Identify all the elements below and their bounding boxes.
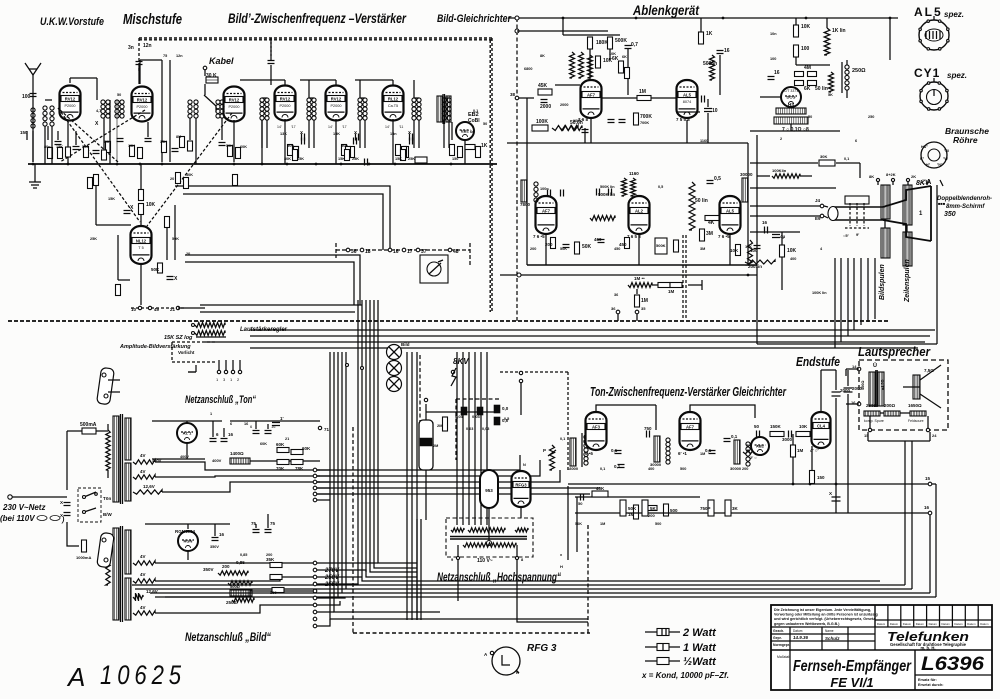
svg-text:15: 15: [864, 433, 869, 438]
svg-text:150: 150: [20, 130, 28, 135]
svg-text:15K SZ log: 15K SZ log: [164, 335, 193, 341]
svg-text:250Ω: 250Ω: [866, 403, 878, 408]
svg-text:10K: 10K: [745, 245, 752, 249]
svg-text:100K lin: 100K lin: [812, 291, 827, 295]
svg-text:6K: 6K: [622, 55, 627, 59]
svg-text:H°: H°: [926, 163, 931, 167]
svg-text:500: 500: [670, 508, 678, 513]
svg-text:78K: 78K: [295, 466, 304, 471]
svg-text:′11: ′11: [399, 125, 403, 129]
svg-text:4V: 4V: [140, 605, 146, 610]
svg-text:25K: 25K: [90, 237, 97, 241]
svg-text:50K: 50K: [226, 144, 233, 148]
svg-text:400V: 400V: [212, 458, 222, 463]
svg-text:Schulz: Schulz: [825, 636, 840, 641]
svg-text:Datum: Datum: [954, 622, 963, 626]
svg-text:′17: ′17: [342, 125, 347, 129]
svg-text:Bild: Bild: [401, 342, 410, 347]
svg-text:500: 500: [287, 143, 294, 148]
svg-text:■■■: ■■■: [938, 201, 946, 206]
svg-text:AL5: AL5: [726, 208, 735, 213]
svg-text:150K: 150K: [770, 424, 782, 429]
svg-text:8KV: 8KV: [453, 357, 469, 366]
svg-text:1 Watt: 1 Watt: [683, 642, 717, 654]
svg-text:50 lin: 50 lin: [815, 86, 828, 92]
svg-text:35: 35: [641, 306, 646, 311]
svg-text:X: X: [300, 130, 303, 135]
svg-text:9′: 9′: [856, 232, 859, 237]
svg-text:200: 200: [222, 564, 230, 569]
svg-text:Mischstufe: Mischstufe: [123, 11, 182, 28]
svg-text:500mA: 500mA: [80, 422, 97, 428]
svg-text:2: 2: [780, 137, 782, 141]
svg-text:Die Zeichnung ist unser Eigent: Die Zeichnung ist unser Eigentum. Jede V…: [774, 608, 871, 612]
svg-text:NL12: NL12: [136, 238, 147, 243]
svg-text:12,6V: 12,6V: [143, 484, 155, 489]
svg-text:spez.: spez.: [944, 10, 964, 19]
svg-text:DCG: DCG: [787, 95, 796, 100]
svg-text:J4: J4: [815, 198, 821, 203]
svg-text:B/W: B/W: [103, 512, 113, 517]
svg-text:Normgepr.: Normgepr.: [773, 643, 790, 647]
svg-text:2M: 2M: [437, 423, 443, 428]
svg-text:50K: 50K: [172, 237, 179, 241]
svg-text:16: 16: [244, 422, 248, 426]
svg-text:350: 350: [270, 590, 277, 595]
svg-text:15K: 15K: [56, 145, 63, 149]
svg-text:X: X: [60, 500, 63, 505]
svg-text:P2000: P2000: [137, 105, 148, 109]
svg-text:Zeilenspulen: Zeilenspulen: [904, 259, 911, 303]
svg-text:½Watt: ½Watt: [683, 656, 717, 668]
svg-text:1M: 1M: [700, 452, 705, 456]
svg-text:0,1: 0,1: [600, 467, 605, 471]
svg-text:Bildspulen: Bildspulen: [879, 264, 886, 300]
svg-text:(bei 110V: (bei 110V: [0, 514, 35, 523]
svg-text:4M: 4M: [804, 65, 811, 71]
svg-text:Datum: Datum: [942, 622, 951, 626]
svg-text:16: 16: [219, 532, 225, 537]
svg-text:RFG3: RFG3: [515, 482, 527, 487]
svg-text:1K: 1K: [706, 31, 713, 37]
svg-text:A: A: [66, 662, 85, 692]
svg-text:°N°: °N°: [937, 163, 943, 167]
svg-text:36: 36: [611, 306, 616, 311]
svg-text:Bild-Gleichrichter: Bild-Gleichrichter: [437, 13, 512, 25]
svg-text:50: 50: [117, 93, 121, 97]
svg-text:1K lin: 1K lin: [832, 28, 846, 34]
svg-text:○5′: ○5′: [843, 233, 849, 238]
svg-text:12n: 12n: [143, 43, 152, 49]
svg-text:7 6 •5: 7 6 •5: [718, 234, 730, 239]
svg-text:100: 100: [801, 46, 810, 52]
svg-text:35K: 35K: [160, 140, 167, 144]
svg-text:40K: 40K: [596, 486, 605, 491]
svg-text:RGN4004: RGN4004: [175, 529, 196, 534]
svg-text:20: 20: [186, 252, 190, 256]
svg-text:30K: 30K: [186, 173, 193, 177]
svg-text:150: 150: [452, 157, 458, 161]
svg-text:30K: 30K: [820, 154, 827, 159]
svg-text:Ü: Ü: [873, 362, 877, 369]
svg-text:CoBl: CoBl: [468, 118, 480, 124]
svg-text:13K: 13K: [280, 132, 287, 136]
svg-text:AF7: AF7: [587, 92, 596, 97]
svg-text:3M: 3M: [700, 247, 705, 251]
svg-text:HS: HS: [788, 102, 794, 107]
svg-text:30000: 30000: [730, 466, 742, 471]
svg-text:700K: 700K: [640, 121, 649, 125]
svg-text:10K: 10K: [146, 202, 156, 208]
svg-text:0,1: 0,1: [731, 434, 738, 439]
svg-text:16: 16: [774, 70, 780, 76]
svg-text:RV12: RV12: [229, 97, 240, 102]
svg-text:10K: 10K: [609, 52, 616, 56]
svg-text:400: 400: [648, 467, 654, 471]
svg-text:36: 36: [351, 249, 357, 255]
svg-text:Tön: Tön: [103, 496, 111, 501]
svg-text:750P: 750P: [700, 506, 711, 511]
svg-text:′17: ′17: [291, 125, 296, 129]
svg-text:8mm-Schirmf: 8mm-Schirmf: [946, 204, 985, 210]
svg-text:Fernseh-Empfänger: Fernseh-Empfänger: [793, 658, 912, 675]
svg-text:30 K: 30 K: [206, 73, 217, 79]
svg-text:460: 460: [594, 237, 602, 242]
svg-text:U.K.W.Vorstufe: U.K.W.Vorstufe: [40, 16, 104, 28]
svg-text:7 5 5 8: 7 5 5 8: [676, 117, 690, 122]
svg-text:250: 250: [868, 115, 874, 119]
svg-text:spez.: spez.: [947, 71, 967, 80]
svg-text:100Klin: 100Klin: [772, 168, 787, 173]
svg-text:AB2: AB2: [756, 444, 765, 449]
svg-text:12n: 12n: [176, 54, 183, 58]
svg-text:60K: 60K: [276, 442, 285, 447]
svg-text:°Bl: °Bl: [944, 149, 949, 153]
svg-text:1M: 1M: [600, 522, 605, 526]
svg-text:953: 953: [485, 488, 493, 493]
svg-text:0,7: 0,7: [631, 42, 638, 48]
svg-text:36: 36: [614, 293, 618, 297]
svg-text:350: 350: [944, 211, 956, 218]
svg-text:P2000: P2000: [280, 104, 291, 108]
svg-text:8M: 8M: [176, 135, 181, 139]
svg-text:50: 50: [754, 424, 760, 429]
svg-text:60K: 60K: [302, 446, 311, 451]
svg-text:Gepr.: Gepr.: [773, 636, 782, 640]
svg-text:75: 75: [163, 54, 167, 58]
svg-text:0,1: 0,1: [560, 437, 565, 441]
svg-text:8+2K: 8+2K: [886, 172, 896, 177]
svg-text:50K: 50K: [575, 522, 582, 526]
svg-text:3000: 3000: [782, 437, 793, 442]
svg-text:270V: 270V: [324, 568, 340, 574]
svg-text:200Ω: 200Ω: [884, 403, 896, 408]
svg-text:1160: 1160: [629, 171, 639, 176]
svg-text:6800: 6800: [524, 67, 532, 71]
svg-text:Datum: Datum: [980, 622, 989, 626]
svg-text:K°: K°: [920, 157, 925, 161]
svg-text:6n: 6n: [470, 130, 475, 134]
svg-text:18: 18: [365, 249, 371, 255]
svg-text:Ablenkgerät: Ablenkgerät: [632, 2, 700, 18]
svg-text:1650Ω: 1650Ω: [908, 403, 922, 408]
svg-text:komp. Spure: komp. Spure: [864, 419, 884, 423]
svg-text:1000mA: 1000mA: [76, 555, 91, 560]
svg-text:70K: 70K: [276, 466, 285, 471]
svg-text:10625: 10625: [100, 660, 186, 690]
svg-text:15K: 15K: [333, 132, 340, 136]
svg-text:m. b. H.: m. b. H.: [920, 646, 935, 651]
svg-text:1K: 1K: [481, 143, 488, 149]
svg-text:5K: 5K: [650, 506, 657, 511]
svg-text:2000: 2000: [852, 386, 863, 391]
svg-text:50 lin: 50 lin: [695, 198, 708, 204]
svg-text:Röhre: Röhre: [953, 135, 978, 145]
svg-text:Netzanschluß „Ton“: Netzanschluß „Ton“: [185, 394, 256, 406]
svg-text:1′: 1′: [280, 416, 284, 421]
svg-text:RV12: RV12: [65, 96, 76, 101]
svg-text:4,7: 4,7: [96, 109, 101, 113]
svg-text:38: 38: [510, 92, 516, 97]
svg-text:3M: 3M: [706, 231, 713, 237]
svg-text:Kabel: Kabel: [209, 56, 234, 66]
svg-text:und wird gerichtlich verfolgt.: und wird gerichtlich verfolgt. (Urheberr…: [774, 617, 875, 621]
svg-text:200: 200: [266, 553, 272, 557]
svg-text:CL4: CL4: [817, 423, 826, 428]
svg-text:500: 500: [655, 522, 661, 526]
svg-text:16: 16: [393, 249, 399, 255]
svg-text:4V: 4V: [140, 453, 146, 458]
svg-text:L6396: L6396: [921, 654, 985, 675]
svg-text:10: 10: [712, 108, 718, 114]
svg-text:10K: 10K: [799, 424, 808, 429]
svg-text:1M: 1M: [668, 289, 675, 294]
svg-text:Vorlicht: Vorlicht: [178, 350, 195, 355]
svg-text:Datum: Datum: [903, 622, 912, 626]
svg-text:0,1: 0,1: [705, 448, 712, 453]
svg-text:Doppelblendenroh-: Doppelblendenroh-: [937, 196, 992, 202]
svg-text:RGN: RGN: [184, 539, 193, 544]
svg-text:25K: 25K: [352, 157, 359, 161]
svg-text:Datum: Datum: [929, 622, 938, 626]
svg-text:Gezch.: Gezch.: [773, 629, 784, 633]
svg-text:100: 100: [22, 94, 31, 100]
svg-text:21: 21: [285, 437, 289, 441]
svg-text:2000: 2000: [540, 104, 551, 110]
svg-text:50K: 50K: [151, 267, 160, 272]
svg-text:75: 75: [270, 521, 276, 526]
svg-text:2001in: 2001in: [748, 264, 762, 269]
svg-text:350V: 350V: [203, 567, 214, 572]
svg-text:1M ••: 1M ••: [634, 276, 645, 281]
svg-text:100K: 100K: [536, 119, 548, 125]
svg-text:N: N: [523, 463, 526, 467]
svg-text:400V: 400V: [180, 455, 189, 459]
svg-text:2′ ○: 2′ ○: [750, 455, 757, 460]
svg-text:C/T 3371: C/T 3371: [784, 89, 798, 93]
svg-text:200: 200: [648, 513, 655, 518]
svg-text:0,0: 0,0: [502, 406, 509, 411]
svg-text:15: 15: [925, 476, 931, 481]
svg-text:30K: 30K: [284, 157, 291, 161]
svg-text:Feldsoure: Feldsoure: [908, 419, 924, 423]
svg-text:4V: 4V: [140, 572, 146, 577]
svg-text:16: 16: [762, 220, 768, 225]
svg-text:50: 50: [483, 122, 487, 126]
svg-text:0,03: 0,03: [455, 414, 464, 419]
svg-text:T 5: T 5: [138, 246, 143, 250]
svg-text:X: X: [829, 491, 832, 496]
svg-text:AZ 1: AZ 1: [183, 431, 192, 436]
svg-text:1M: 1M: [641, 298, 648, 304]
svg-text:500: 500: [82, 145, 88, 149]
svg-text:15n: 15n: [390, 132, 397, 136]
svg-text:16: 16: [724, 48, 730, 54]
svg-text:Verwertung oder Mitteilung an: Verwertung oder Mitteilung an dritte Per…: [774, 613, 878, 617]
svg-text:4µ: 4µ: [780, 234, 786, 239]
svg-text:37: 37: [421, 249, 427, 255]
svg-text:50: 50: [808, 115, 812, 119]
svg-text:500Ω: 500Ω: [230, 584, 241, 589]
svg-text:6′ •1: 6′ •1: [678, 451, 687, 456]
svg-text:3K: 3K: [732, 506, 739, 511]
svg-text:71: 71: [324, 427, 330, 432]
svg-text:CY1: CY1: [914, 66, 940, 80]
svg-text:Datum: Datum: [967, 622, 976, 626]
svg-text:0,03: 0,03: [472, 414, 481, 419]
svg-text:17: 17: [407, 249, 413, 255]
svg-text:°W: °W: [943, 157, 948, 161]
svg-text:110 V~: 110 V~: [477, 558, 493, 564]
svg-text:AF3: AF3: [592, 424, 601, 429]
svg-text:50: 50: [578, 501, 583, 506]
svg-text:250V: 250V: [324, 575, 340, 581]
svg-text:6: 6: [230, 422, 232, 426]
svg-text:15K: 15K: [108, 197, 115, 201]
svg-text:Datum: Datum: [877, 622, 886, 626]
svg-text:500K lin: 500K lin: [600, 185, 615, 189]
svg-text:50K: 50K: [582, 244, 592, 250]
svg-text:25K: 25K: [408, 157, 415, 161]
svg-text:x = Kond, 10000 pF–Zf.: x = Kond, 10000 pF–Zf.: [641, 671, 729, 680]
svg-text:50K: 50K: [560, 247, 567, 251]
svg-text:4V: 4V: [140, 554, 146, 559]
svg-text:10K: 10K: [730, 248, 739, 253]
svg-text:7′: 7′: [746, 443, 749, 448]
svg-text:14′: 14′: [385, 125, 390, 129]
svg-text:7800: 7800: [520, 202, 531, 207]
svg-text:6 •6: 6 •6: [585, 451, 593, 456]
svg-text:500: 500: [341, 143, 348, 148]
svg-text:=4,2Ω: =4,2Ω: [881, 379, 885, 390]
svg-text:14: 14: [852, 364, 857, 369]
svg-text:2M: 2M: [433, 444, 438, 448]
svg-text:6: 6: [855, 139, 857, 143]
svg-text:0,5: 0,5: [714, 176, 721, 182]
svg-text:P2000: P2000: [229, 105, 240, 109]
svg-text:100: 100: [770, 57, 776, 61]
svg-text:AL5: AL5: [683, 92, 692, 97]
svg-text:20: 20: [170, 177, 174, 181]
svg-text:8K: 8K: [869, 174, 874, 179]
svg-text:10K: 10K: [128, 144, 135, 148]
svg-text:AL2: AL2: [635, 208, 644, 213]
svg-text:1: 1: [210, 412, 212, 416]
svg-text:100n: 100n: [540, 187, 549, 191]
svg-text:FE VI/1: FE VI/1: [830, 675, 873, 690]
svg-text:Datum: Datum: [793, 629, 803, 633]
svg-text:8074: 8074: [683, 100, 691, 104]
svg-text:X: X: [354, 130, 357, 135]
svg-text:150: 150: [817, 475, 825, 480]
svg-text:5K: 5K: [828, 93, 833, 97]
svg-text:250Ω: 250Ω: [852, 68, 866, 74]
svg-text:Name: Name: [825, 629, 834, 633]
svg-text:1M: 1M: [639, 89, 646, 95]
svg-text:60K: 60K: [240, 145, 247, 149]
svg-text:14′: 14′: [277, 125, 282, 129]
svg-text:16: 16: [271, 424, 276, 429]
svg-text:750: 750: [644, 426, 652, 431]
svg-text:1400Ω: 1400Ω: [230, 451, 244, 456]
svg-text:0,1: 0,1: [614, 464, 621, 469]
svg-text:Netzanschluß „Hochspannung“: Netzanschluß „Hochspannung“: [437, 572, 561, 584]
svg-text:Ton-Zwischenfrequenz-Verstärke: Ton-Zwischenfrequenz-Verstärker Gleichri…: [590, 385, 787, 399]
svg-text:45K: 45K: [538, 83, 548, 89]
svg-text:RV12: RV12: [331, 96, 342, 101]
svg-text:6K: 6K: [612, 56, 619, 62]
svg-text:0,85: 0,85: [240, 553, 247, 557]
svg-text:16: 16: [924, 505, 930, 510]
svg-text:2 Watt: 2 Watt: [682, 627, 717, 639]
svg-text:16: 16: [228, 432, 234, 437]
svg-text:200: 200: [530, 247, 536, 251]
svg-text:Datum: Datum: [890, 622, 899, 626]
svg-text:Ersetzt durch:: Ersetzt durch:: [918, 683, 944, 687]
svg-text:EB2: EB2: [461, 129, 470, 134]
svg-text:500K: 500K: [615, 38, 627, 44]
svg-text:2K: 2K: [911, 174, 916, 179]
svg-text:350V: 350V: [210, 545, 219, 549]
svg-text:Maßstab: Maßstab: [777, 655, 790, 659]
svg-text:35K: 35K: [266, 557, 275, 562]
svg-text:500: 500: [680, 467, 686, 471]
svg-text:230 V~Netz: 230 V~Netz: [2, 503, 45, 512]
svg-text:Lautsprecher: Lautsprecher: [858, 344, 931, 359]
svg-text:1M: 1M: [797, 448, 804, 453]
svg-text:P2000: P2000: [331, 104, 342, 108]
svg-text:RV12: RV12: [137, 97, 148, 102]
svg-text:2000: 2000: [560, 103, 568, 107]
svg-text:6K: 6K: [804, 86, 811, 92]
svg-text:4V: 4V: [140, 469, 146, 474]
svg-text:18000: 18000: [567, 466, 579, 471]
svg-text:HA°: HA°: [921, 145, 928, 149]
svg-text:48: 48: [453, 249, 459, 255]
svg-text:3n: 3n: [128, 45, 134, 51]
svg-text:50K: 50K: [628, 506, 637, 511]
svg-text:4K: 4K: [708, 220, 715, 226]
svg-text:250Δ: 250Δ: [226, 600, 238, 605]
svg-text:12,6V: 12,6V: [146, 589, 158, 594]
svg-text:5086n: 5086n: [703, 61, 717, 67]
svg-text:100K: 100K: [573, 119, 582, 123]
svg-text:500K: 500K: [656, 243, 666, 248]
svg-text:AF7: AF7: [686, 424, 695, 429]
svg-text:1160: 1160: [700, 139, 708, 143]
svg-text:P2000: P2000: [65, 104, 76, 108]
svg-text:gegen unlauteren Wettbewerb, B: gegen unlauteren Wettbewerb, B.G.B.): [774, 622, 840, 626]
